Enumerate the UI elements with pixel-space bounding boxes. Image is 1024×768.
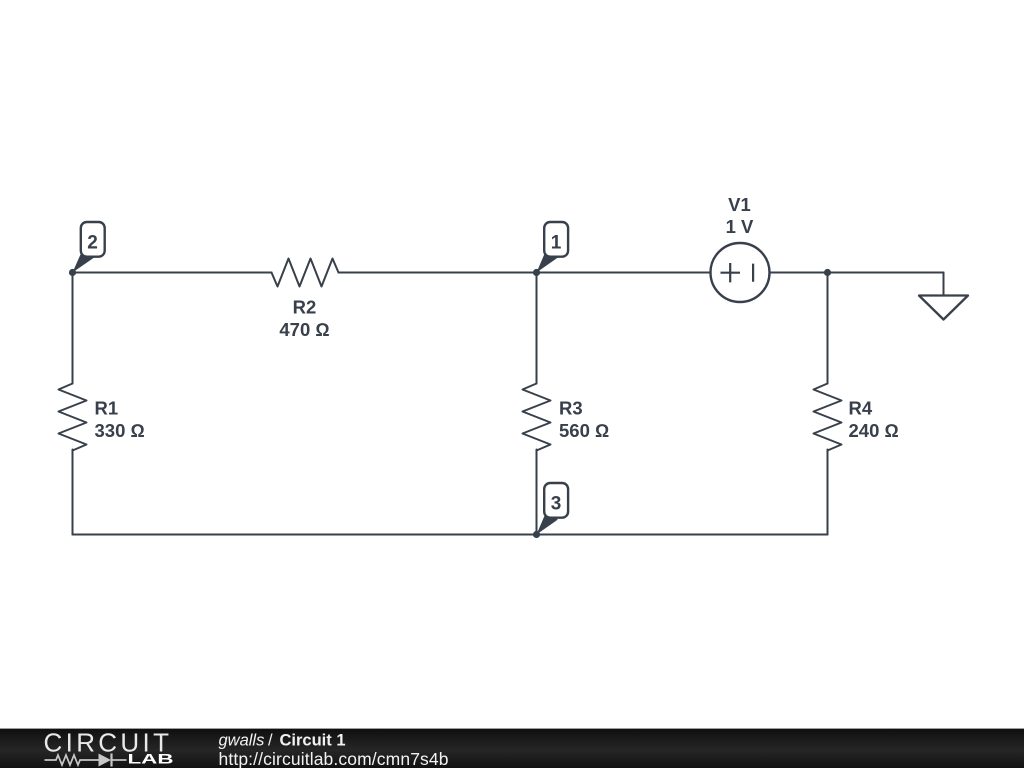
label R1 value [95,398,145,442]
junction dot right rail [824,269,831,276]
svg-text:470 Ω: 470 Ω [279,319,329,340]
svg-text:Circuit 1: Circuit 1 [280,731,346,749]
svg-text:3: 3 [551,494,562,515]
svg-text:330 Ω: 330 Ω [95,420,145,441]
svg-text:V1: V1 [728,194,751,215]
svg-text:1: 1 [551,233,562,254]
resistor R2 [272,259,339,287]
label R3 value [559,398,609,442]
svg-text:/: / [268,731,273,749]
wire node 2 down to R1 [72,273,74,384]
wire right junction down to R4 [827,273,829,384]
resistor R3 [523,384,551,451]
voltage source V1 [711,243,770,302]
svg-text:2: 2 [87,233,98,254]
wire R2 to node 1 [339,272,537,274]
svg-text:R3: R3 [559,398,583,419]
node 1 flag [537,222,569,273]
label V1 value [726,194,754,237]
wire bottom rail [73,534,828,536]
junction dot node 1 [533,269,540,276]
resistor R1 [59,384,87,451]
svg-text:R1: R1 [95,398,119,419]
label R4 value [849,398,899,442]
svg-text:R2: R2 [293,297,317,318]
svg-text:560 Ω: 560 Ω [559,420,609,441]
wire down to ground [943,273,945,296]
footer bar [0,729,1024,768]
junction dot node 3 [533,531,540,538]
svg-text:1 V: 1 V [726,216,754,237]
wire V1 to right junction [770,272,944,274]
node 3 flag [537,483,569,535]
junction dot node 2 [69,269,76,276]
svg-text:gwalls: gwalls [219,731,265,749]
svg-text:LAB: LAB [128,751,174,767]
svg-text:http://circuitlab.com/cmn7s4b: http://circuitlab.com/cmn7s4b [219,749,449,768]
wire R1 to bottom rail [72,450,74,535]
label R2 value [279,297,329,341]
wire R4 to bottom rail [827,450,829,535]
wire node 1 to V1 [537,272,711,274]
CircuitLab logo circuit glyph [45,754,127,767]
CircuitLab logo diode [99,754,112,767]
wire top-left from node 2 to R2 [73,272,272,274]
ground [919,296,968,320]
wire node 1 down to R3 [536,273,538,384]
wire R3 to node 3 [536,450,538,535]
svg-text:R4: R4 [849,398,873,419]
svg-text:240 Ω: 240 Ω [849,420,899,441]
node 2 flag [73,222,105,273]
resistor R4 [814,384,842,451]
